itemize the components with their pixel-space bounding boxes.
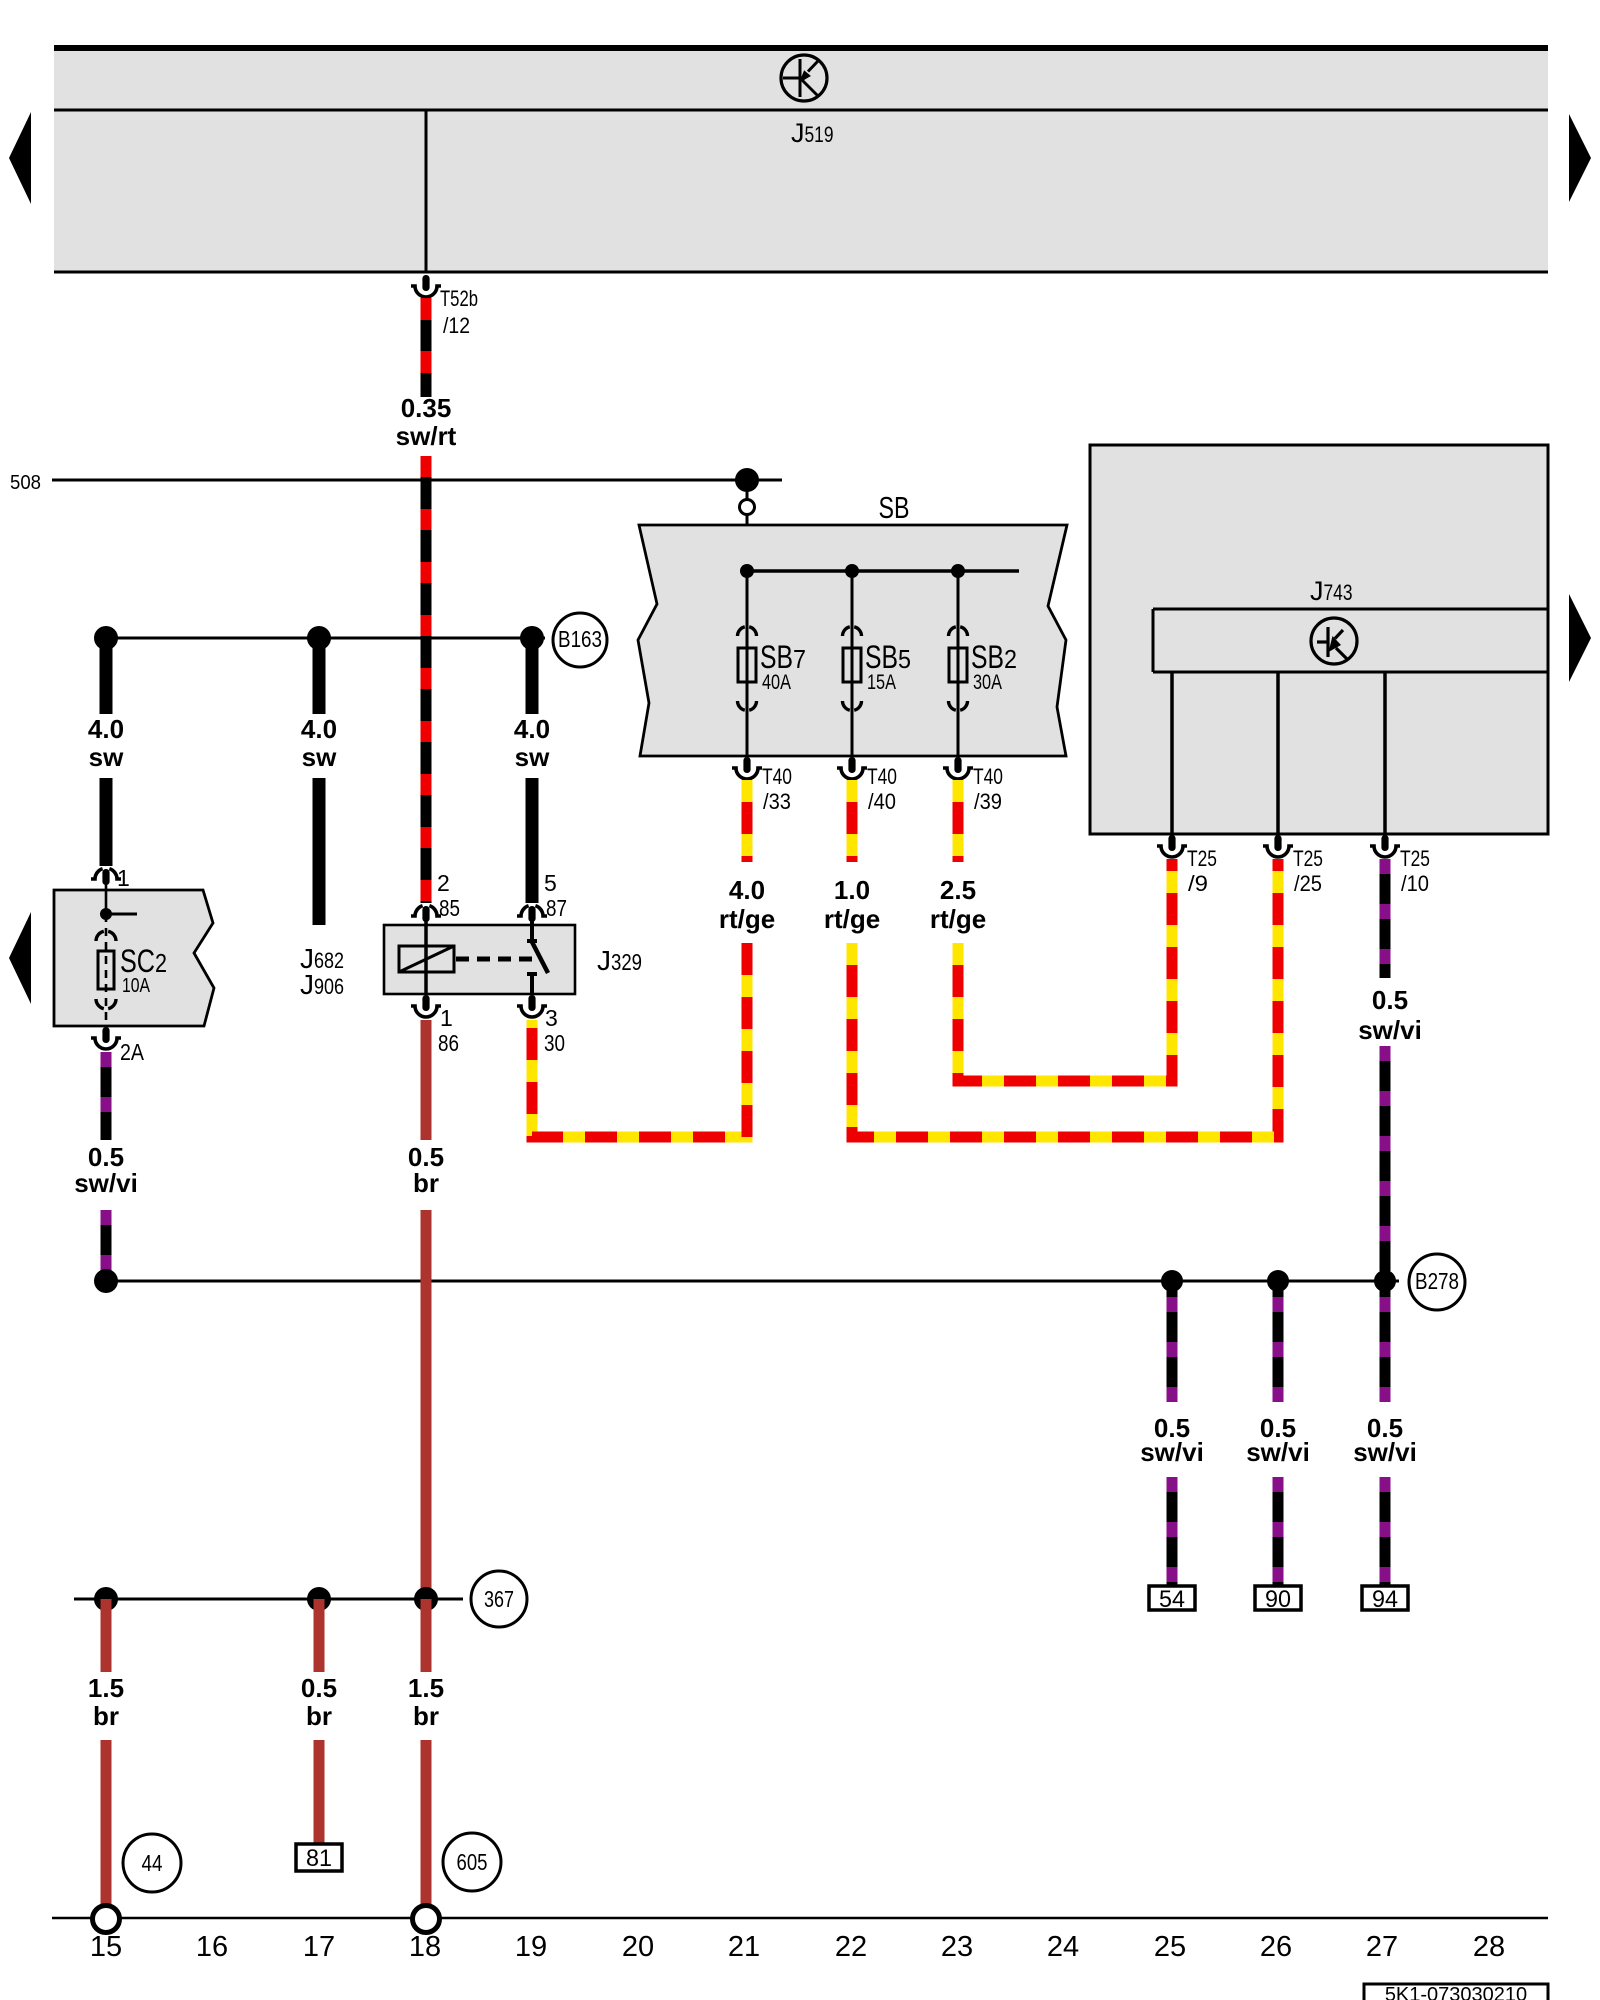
relay coil [424, 918, 428, 946]
ground point 90 [1255, 1586, 1301, 1610]
junction on B163 at x=532 [520, 626, 544, 650]
wire 0.5 sw/vi to ground 94 [1380, 1284, 1391, 1402]
svg-text:sw: sw [89, 742, 124, 772]
wire 4.0 sw to relay pin 87 [526, 778, 539, 903]
wire rt/ge run: J329 pin30 to SB7 (T40/33) [532, 943, 747, 1137]
wire 0.5 sw/vi to ground 90 [1273, 1284, 1284, 1402]
junction on B163 at x=106 [94, 626, 118, 650]
connector T25/25 [1274, 835, 1281, 851]
svg-text:rt/ge: rt/ge [719, 904, 775, 934]
open terminal circle [740, 500, 755, 515]
svg-text:sw/rt: sw/rt [396, 421, 457, 451]
wire 0.5 sw/vi T25/10 to B278 [1380, 1046, 1391, 1281]
ground point 54 [1149, 1586, 1195, 1610]
wire br down to 367 [421, 1210, 432, 1599]
svg-text:4.0: 4.0 [88, 714, 124, 744]
svg-text:508: 508 [10, 472, 41, 494]
bottom track line [52, 1917, 1548, 1920]
junction on B163 at x=319 [307, 626, 331, 650]
svg-text:25: 25 [1154, 1931, 1186, 1963]
svg-text:1.0: 1.0 [834, 875, 870, 905]
wire 1.5 br below 367 at x=106 [101, 1599, 112, 1672]
wire br to ground 81 [314, 1740, 325, 1844]
fuse holder box SC2 [54, 890, 214, 1026]
J743 internal wires [1170, 672, 1174, 834]
SB internal bus [747, 569, 1019, 573]
node 367 line [74, 1598, 463, 1601]
connector T40/33 [743, 757, 750, 773]
wire 0.5 br from J329 pin 86 [421, 1020, 432, 1140]
svg-text:5: 5 [544, 870, 557, 896]
wire 4.0 sw at x=106 [100, 638, 113, 714]
svg-text:J743: J743 [1310, 576, 1353, 606]
wire rt/ge run: SB5 (T40/40) to T25/25 [852, 859, 1278, 1137]
svg-text:22: 22 [835, 1931, 867, 1963]
svg-text:J329: J329 [597, 945, 642, 976]
wire br to ground 44 [101, 1740, 112, 1906]
svg-text:0.5: 0.5 [301, 1673, 337, 1703]
connector pin 2A (SC2) [102, 1027, 109, 1043]
wire 0.35 sw/rt crossing 508 [421, 470, 432, 500]
svg-text:18: 18 [409, 1931, 441, 1963]
svg-text:367: 367 [484, 1586, 514, 1612]
svg-text:86: 86 [438, 1030, 459, 1056]
wire 0.35 sw/rt (upper stub) [421, 298, 432, 397]
wire br to ground 605 [421, 1740, 432, 1906]
connector T25/10 [1381, 835, 1388, 851]
onboard supply control unit symbol (J519) [781, 55, 827, 101]
fuse box SB [638, 525, 1067, 756]
wire 4.0 sw at x=532 [526, 638, 539, 714]
svg-text:30: 30 [544, 1030, 565, 1056]
connector T25/9 [1168, 835, 1175, 851]
svg-text:27: 27 [1366, 1931, 1398, 1963]
ground point 81 [296, 1844, 342, 1871]
svg-text:J519: J519 [791, 118, 834, 148]
svg-text:SB7: SB7 [760, 639, 806, 675]
wire 1.5 br below 367 at x=426 [421, 1599, 432, 1672]
svg-text:sw: sw [515, 742, 550, 772]
svg-text:rt/ge: rt/ge [824, 904, 880, 934]
svg-text:3: 3 [545, 1005, 558, 1031]
connector T40/40 [848, 757, 855, 773]
wire rt/ge run: SB2 (T40/39) to T25/9 [958, 859, 1172, 1081]
svg-text:sw/vi: sw/vi [1353, 1437, 1417, 1467]
svg-text:B163: B163 [558, 626, 602, 652]
svg-text:90: 90 [1265, 1586, 1291, 1613]
svg-text:sw/vi: sw/vi [1246, 1437, 1310, 1467]
wire 4.0 sw to SC2 [100, 778, 113, 866]
svg-text:/33: /33 [763, 789, 791, 814]
svg-text:SC2: SC2 [120, 943, 167, 979]
fuse SC2 10A [105, 914, 108, 1026]
svg-text:0.35: 0.35 [401, 393, 452, 423]
wire 0.5 sw/vi to ground 54 [1167, 1284, 1178, 1402]
svg-text:J906: J906 [300, 969, 344, 1000]
junction on 508 [735, 468, 759, 492]
connector pin 2/85 (J329) [411, 906, 423, 916]
wire br crossing B278 [421, 1270, 432, 1295]
svg-text:1.5: 1.5 [408, 1673, 444, 1703]
svg-text:/39: /39 [974, 789, 1002, 814]
svg-text:17: 17 [303, 1931, 335, 1963]
ground circle 44 [123, 1834, 181, 1892]
node B278 line [106, 1280, 1399, 1283]
node circle 367 [471, 1571, 527, 1627]
connector pin 1 (SC2) [91, 869, 103, 879]
svg-text:SB5: SB5 [865, 639, 911, 675]
svg-text:sw: sw [302, 742, 337, 772]
junction on B278 at x=1172 [1161, 1270, 1183, 1292]
wire 4.0 sw at x=319 [313, 638, 326, 714]
svg-text:T40: T40 [762, 764, 792, 789]
fuse SB7 40A [746, 571, 749, 756]
wire J519 internal [425, 110, 428, 272]
svg-text:br: br [413, 1168, 439, 1198]
svg-text:44: 44 [142, 1850, 163, 1876]
connector pin 5/87 (J329) [517, 906, 529, 916]
ground circle 605 [443, 1833, 501, 1891]
SC2 feed junction [105, 890, 108, 914]
node circle B278 [1409, 1254, 1465, 1310]
svg-text:4.0: 4.0 [729, 875, 765, 905]
junction on B278 at x=1385 [1374, 1270, 1396, 1292]
wire 508 to SB [746, 480, 749, 571]
J743 internal rect [1153, 608, 1548, 611]
svg-text:sw/vi: sw/vi [1140, 1437, 1204, 1467]
svg-text:T25: T25 [1400, 846, 1430, 871]
node circle B163 [553, 613, 607, 667]
svg-text:rt/ge: rt/ge [930, 904, 986, 934]
svg-text:15: 15 [90, 1931, 122, 1963]
svg-text:605: 605 [457, 1849, 488, 1875]
svg-text:4.0: 4.0 [514, 714, 550, 744]
svg-text:40A: 40A [762, 671, 791, 694]
svg-text:20: 20 [622, 1931, 654, 1963]
svg-text:21: 21 [728, 1931, 760, 1963]
relay link dashed [456, 957, 532, 962]
connector T40/39 [954, 757, 961, 773]
control unit box J519 [54, 47, 1548, 272]
current-flow arrow right (top box) [1569, 114, 1591, 202]
svg-text:19: 19 [515, 1931, 547, 1963]
svg-text:br: br [413, 1701, 439, 1731]
svg-text:15A: 15A [867, 671, 896, 694]
wire 4.0 sw to J682/J906 [313, 778, 326, 925]
svg-text:30A: 30A [973, 671, 1002, 694]
svg-text:4.0: 4.0 [301, 714, 337, 744]
svg-text:26: 26 [1260, 1931, 1292, 1963]
svg-text:5K1-073030210: 5K1-073030210 [1385, 1984, 1527, 2000]
svg-text:2A: 2A [120, 1039, 145, 1065]
track terminal circle 15 [93, 1906, 120, 1933]
svg-text:87: 87 [546, 895, 567, 921]
svg-text:SB2: SB2 [971, 639, 1017, 675]
svg-text:T40: T40 [973, 764, 1003, 789]
svg-text:85: 85 [439, 895, 460, 921]
svg-text:81: 81 [306, 1845, 332, 1872]
svg-text:T52b: T52b [440, 286, 478, 311]
node B163 line [106, 637, 545, 640]
svg-text:T25: T25 [1293, 846, 1323, 871]
svg-text:16: 16 [196, 1931, 228, 1963]
current-flow arrow left (top box) [9, 112, 31, 204]
svg-text:T25: T25 [1187, 846, 1217, 871]
current-flow arrow right (J743) [1569, 594, 1591, 682]
wire 0.5 sw/vi from SC2 pin 2A [101, 1052, 112, 1140]
svg-text:br: br [306, 1701, 332, 1731]
svg-text:28: 28 [1473, 1931, 1505, 1963]
svg-text:/12: /12 [443, 313, 470, 338]
svg-text:SB: SB [879, 490, 910, 525]
current-flow arrow left (SC2) [9, 912, 31, 1004]
svg-text:24: 24 [1047, 1931, 1079, 1963]
track terminal circle 18 [413, 1906, 440, 1933]
svg-text:T40: T40 [867, 764, 897, 789]
svg-text:br: br [93, 1701, 119, 1731]
svg-text:/40: /40 [868, 789, 896, 814]
connector pin 3/30 (J329) [528, 995, 535, 1011]
svg-text:23: 23 [941, 1931, 973, 1963]
fuse SB2 30A [957, 571, 960, 756]
wire 0.35 sw/rt (to relay pin 85) [421, 456, 432, 903]
control unit symbol (J743) [1311, 618, 1357, 664]
wire 1.0 rt/ge stub from T40 [847, 780, 858, 862]
relay switch contact [530, 918, 534, 941]
svg-text:sw/vi: sw/vi [74, 1168, 138, 1198]
svg-text:1: 1 [117, 865, 130, 891]
svg-text:54: 54 [1159, 1586, 1185, 1613]
diagram number box [1364, 1984, 1548, 2000]
svg-text:10A: 10A [122, 975, 151, 997]
svg-text:2.5: 2.5 [940, 875, 976, 905]
svg-text:/25: /25 [1294, 871, 1322, 896]
relay J329 box [384, 925, 575, 994]
wire 0.5 sw/vi from T25/10 (stub) [1380, 859, 1391, 978]
svg-text:2: 2 [437, 870, 450, 896]
wire 0.5 br below 367 at x=319 [314, 1599, 325, 1672]
junction on B278 at x=1278 [1267, 1270, 1289, 1292]
svg-text:/10: /10 [1401, 871, 1429, 896]
svg-text:B278: B278 [1415, 1268, 1459, 1294]
svg-text:sw/vi: sw/vi [1358, 1015, 1422, 1045]
svg-text:/9: /9 [1188, 871, 1208, 896]
fuse SB5 15A [851, 571, 854, 756]
wire sw/vi down to B278 [101, 1210, 112, 1281]
ground point 94 [1362, 1586, 1408, 1610]
wire 4.0 rt/ge stub from T40 [742, 780, 753, 862]
control unit box J743 (Mechatronik) [1090, 445, 1548, 834]
svg-text:1.5: 1.5 [88, 1673, 124, 1703]
svg-text:0.5: 0.5 [1372, 985, 1408, 1015]
connector T52b/12 [422, 275, 429, 291]
wire 2.5 rt/ge stub from T40 [953, 780, 964, 862]
svg-text:1: 1 [440, 1005, 453, 1031]
svg-text:94: 94 [1372, 1586, 1398, 1613]
connector pin 1/86 (J329) [422, 995, 429, 1011]
